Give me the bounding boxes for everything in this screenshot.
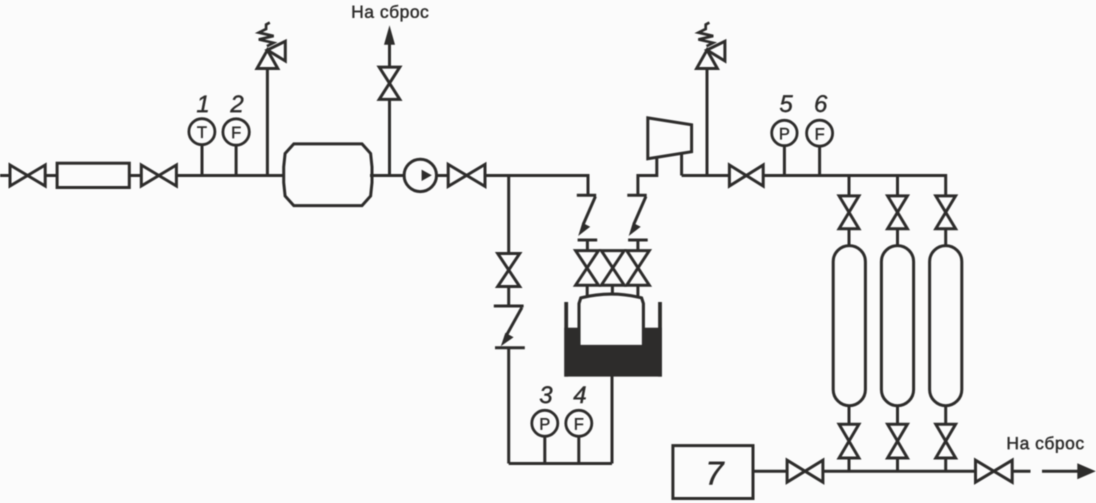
gauge 4 (F) circle (566, 410, 592, 436)
gauge 1 (T) circle (189, 119, 215, 145)
gauge 3 (P) circle (532, 410, 558, 436)
compressor K1 (648, 118, 692, 159)
wire bottom manifold (823, 470, 976, 473)
gauge 6 (F) circle (807, 120, 833, 146)
valve V4 (448, 164, 485, 186)
cylinder bottom stems to manifold (848, 458, 851, 471)
bath valve V8 (right) (627, 251, 650, 286)
cylinder bottom valve V15 (936, 424, 956, 458)
cylinder neck stems bottom (848, 406, 851, 425)
cylinder bottom valve V13 (839, 424, 859, 458)
wire inlet stub (0, 174, 11, 177)
compressor outlet stub (680, 153, 683, 175)
bath valve stems to dome (586, 285, 589, 297)
svg-text:P: P (779, 125, 790, 143)
bath left wall (564, 302, 568, 377)
wire relief valve 2 riser (706, 69, 709, 176)
vessel B1 (284, 144, 372, 206)
wire valve V5 to hose (507, 287, 510, 307)
cylinder bottom valve V14 (888, 424, 908, 458)
bath valve V7 (middle) (601, 251, 624, 286)
branch junction down leg (507, 176, 510, 254)
bath right wall (658, 302, 662, 377)
svg-text:6: 6 (814, 91, 828, 118)
hose H1 (flex with arrow) (494, 306, 525, 348)
relief valve PSV1 (257, 23, 285, 69)
cylinder top valve V10 (839, 196, 859, 229)
pump P1 rotor triangle (422, 170, 432, 181)
valve V5 (vertical, branch) (498, 254, 520, 287)
gauge 2 (F) stem (235, 145, 238, 176)
gauge 5 (P) stem (783, 146, 786, 176)
box 7 (unit) (673, 446, 753, 499)
svg-text:3: 3 (539, 382, 553, 409)
gauge 6 (F) stem (818, 146, 821, 176)
cylinder neck stems top (848, 229, 851, 247)
vent line to arrow (388, 43, 391, 67)
vent arrow head (384, 25, 395, 45)
svg-text:7: 7 (705, 455, 725, 492)
svg-text:5: 5 (779, 91, 793, 118)
hose H3 (right bath hose) (627, 195, 647, 250)
wire valve V1 to filter (45, 174, 57, 177)
filter F (57, 163, 129, 187)
svg-text:1: 1 (196, 91, 209, 118)
wire hose H3 feed jog (638, 157, 657, 195)
cylinder branch drop 1 (848, 176, 851, 196)
gauge 5 (P) circle (772, 120, 797, 145)
wire bath drain (611, 375, 614, 464)
cylinder C3 (930, 246, 962, 406)
cylinder C1 (833, 246, 865, 406)
relief valve PSV2 (697, 23, 725, 69)
gauge 3 (P) stem (543, 436, 546, 464)
wire compressor to valve V9 (682, 174, 730, 177)
cylinder top valve V12 (936, 196, 956, 229)
svg-text:На сброс: На сброс (1006, 433, 1084, 453)
cylinder top valve V11 (888, 196, 908, 229)
svg-text:F: F (574, 416, 584, 434)
svg-text:F: F (815, 126, 825, 144)
wire vessel to pump (370, 174, 404, 177)
vent valve V3 (vertical) (379, 67, 400, 99)
valve V16 (787, 460, 823, 482)
wire valve V2 to vessel (176, 174, 284, 177)
outlet arrow (1042, 463, 1096, 479)
svg-text:F: F (231, 124, 241, 142)
svg-text:4: 4 (573, 382, 586, 409)
valve V2 (141, 165, 176, 186)
wire pump to valve V4 (437, 174, 449, 177)
svg-text:P: P (539, 416, 550, 434)
valve V1 inlet (10, 165, 45, 186)
wire bottom loop (509, 462, 612, 465)
wire manifold top (763, 176, 946, 196)
gauge 1 (T) stem (201, 145, 204, 176)
valve V9 (729, 165, 763, 186)
cylinder C2 (881, 246, 913, 406)
wire hose H1 down (507, 348, 510, 464)
wire box 7 to valve V16 (753, 470, 787, 473)
gauge 2 (F) circle (223, 119, 249, 145)
svg-text:На сброс: На сброс (351, 2, 429, 22)
wire relief valve 1 riser (266, 69, 269, 176)
bath liquid (black) (564, 328, 662, 377)
vent riser to relief (388, 99, 391, 175)
wire valve V17 out (1012, 470, 1030, 473)
hose H2 (left bath hose) (577, 195, 597, 250)
valve V17 (outlet) (976, 460, 1013, 482)
bath valve V6 (left) (576, 251, 599, 286)
test vessel in bath with dome (579, 294, 643, 346)
pump P1 circle (404, 159, 436, 191)
wire valve V4 to corner (485, 176, 588, 196)
svg-text:T: T (197, 124, 207, 142)
gauge 4 (F) stem (577, 436, 580, 464)
wire filter to valve V2 (129, 174, 141, 177)
cylinder branch drop 2 (896, 176, 899, 196)
svg-text:2: 2 (229, 91, 243, 118)
